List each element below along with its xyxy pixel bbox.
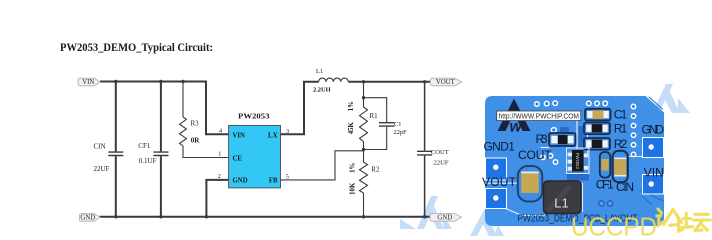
svg-text:VOUT: VOUT bbox=[482, 175, 517, 189]
svg-text:CIN: CIN bbox=[616, 180, 634, 194]
svg-text:22UF: 22UF bbox=[434, 159, 449, 166]
svg-text:GND1: GND1 bbox=[484, 140, 516, 154]
svg-text:LX: LX bbox=[268, 132, 278, 139]
svg-text:CF1: CF1 bbox=[596, 178, 614, 192]
svg-text:L1: L1 bbox=[554, 196, 568, 211]
svg-text:4: 4 bbox=[219, 128, 222, 135]
svg-text:22UF: 22UF bbox=[94, 165, 110, 173]
svg-text:PW2053: PW2053 bbox=[575, 153, 580, 170]
svg-text:C1: C1 bbox=[614, 108, 628, 122]
svg-text:VIN: VIN bbox=[82, 79, 94, 86]
svg-text:PW2053_DEMO_Typical Circuit:: PW2053_DEMO_Typical Circuit: bbox=[60, 40, 213, 54]
svg-text:1%: 1% bbox=[348, 101, 355, 111]
svg-text:1%: 1% bbox=[350, 163, 357, 173]
svg-text:GND: GND bbox=[80, 215, 95, 222]
svg-text:VIN: VIN bbox=[233, 132, 246, 139]
svg-text:22pF: 22pF bbox=[394, 129, 408, 136]
svg-text:UCCPD: UCCPD bbox=[571, 212, 657, 237]
svg-text:w: w bbox=[510, 119, 523, 136]
svg-text:GND: GND bbox=[233, 178, 248, 185]
svg-text:VIN: VIN bbox=[644, 166, 664, 180]
svg-text:10K: 10K bbox=[350, 182, 357, 195]
svg-text:1: 1 bbox=[218, 151, 221, 158]
svg-text:45K: 45K bbox=[348, 121, 355, 134]
svg-text:FB: FB bbox=[269, 178, 278, 185]
svg-text:R3: R3 bbox=[536, 132, 548, 146]
svg-text:R3: R3 bbox=[191, 120, 200, 128]
svg-text:CE: CE bbox=[233, 155, 243, 162]
svg-text:GND: GND bbox=[437, 215, 452, 222]
svg-text:R1: R1 bbox=[370, 112, 379, 120]
svg-text:3: 3 bbox=[286, 128, 289, 135]
svg-text:CF1: CF1 bbox=[138, 142, 151, 150]
svg-text:5: 5 bbox=[286, 174, 289, 181]
svg-text:R2: R2 bbox=[371, 166, 380, 174]
svg-text:0.1UF: 0.1UF bbox=[139, 157, 157, 165]
svg-text:COUT: COUT bbox=[518, 148, 552, 162]
svg-text:C1: C1 bbox=[394, 121, 401, 128]
svg-text:R1: R1 bbox=[614, 122, 628, 136]
svg-text:PW2053: PW2053 bbox=[238, 111, 270, 120]
svg-text:L1: L1 bbox=[316, 68, 323, 75]
svg-text:COUT: COUT bbox=[431, 149, 449, 156]
svg-text:CIN: CIN bbox=[94, 143, 106, 151]
svg-text:VOUT: VOUT bbox=[436, 79, 456, 86]
svg-text:GND: GND bbox=[642, 123, 665, 137]
svg-text:R2: R2 bbox=[614, 137, 628, 151]
svg-text:0R: 0R bbox=[191, 137, 201, 145]
svg-text:http://WWW.PWCHIP.COM: http://WWW.PWCHIP.COM bbox=[499, 114, 580, 121]
svg-text:2: 2 bbox=[218, 173, 221, 180]
svg-text:2.2UH: 2.2UH bbox=[313, 86, 331, 93]
